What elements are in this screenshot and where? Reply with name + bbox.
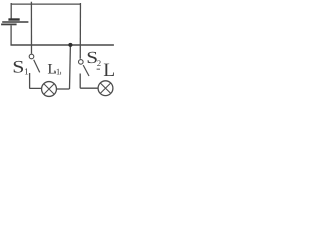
wire S1 lower terminal xyxy=(30,73,42,88)
wire L1 branch riser xyxy=(69,45,72,89)
svg-text:1: 1 xyxy=(56,67,60,77)
svg-text:L: L xyxy=(103,60,114,81)
battery plate short thick (top) xyxy=(8,18,19,20)
svg-text:1: 1 xyxy=(24,67,29,77)
svg-text:2: 2 xyxy=(97,58,101,68)
wire battery negative lead xyxy=(10,25,12,44)
label S1 xyxy=(12,57,29,77)
wire S2 lower terminal xyxy=(80,74,98,89)
wire bottom bus xyxy=(10,44,113,46)
stray mark near S2 blade xyxy=(97,68,100,70)
lamp L2 xyxy=(98,81,113,96)
switch S1 blade xyxy=(34,60,40,73)
battery plate long thin (middle) xyxy=(2,21,28,23)
node junction dot xyxy=(68,43,72,47)
label S2 xyxy=(86,48,101,68)
switch S2 blade xyxy=(83,65,89,76)
switch S2 pivot xyxy=(79,60,84,65)
wire battery positive lead xyxy=(10,3,12,19)
wire S2 branch vertical xyxy=(79,3,81,59)
wire S1 branch vertical xyxy=(30,2,32,54)
lamp L1 xyxy=(42,82,57,97)
svg-text:S: S xyxy=(12,57,24,77)
switch S1 pivot xyxy=(29,54,34,59)
wire top rail xyxy=(11,3,81,5)
battery plate short (bottom) xyxy=(1,23,17,25)
wire L1 right lead xyxy=(56,88,69,90)
label L1 xyxy=(47,61,60,77)
